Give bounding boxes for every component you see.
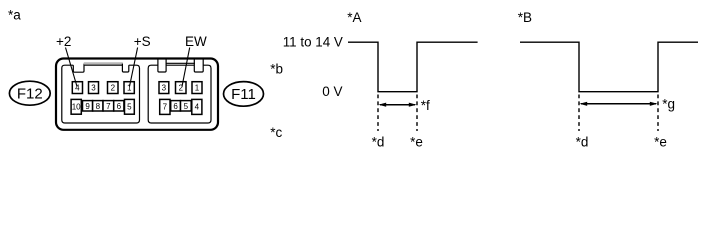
svg-text:8: 8 [96, 102, 101, 111]
waveform B width arrow [579, 102, 657, 106]
svg-text:3: 3 [91, 83, 96, 92]
svg-text:*a: *a [8, 7, 21, 22]
connector F12 left cavity outline [62, 64, 84, 120]
ellipse F11 [224, 82, 264, 107]
pin 4 (F11) [192, 99, 202, 114]
svg-text:*g: *g [662, 97, 675, 112]
svg-text:3: 3 [162, 83, 167, 92]
waveform A dashed marker right [416, 95, 418, 132]
svg-text:9: 9 [85, 102, 90, 111]
connector housing outer [56, 59, 218, 130]
pin 2 (F11) [176, 82, 187, 94]
svg-text:F11: F11 [231, 86, 256, 103]
pin 9 (F12) [83, 101, 93, 111]
svg-text:7: 7 [106, 102, 111, 111]
svg-text:10: 10 [72, 103, 81, 112]
svg-text:4: 4 [195, 103, 200, 112]
pin 1 (F12) [124, 82, 134, 94]
svg-text:7: 7 [163, 103, 168, 112]
pin 3 (F11) [159, 82, 169, 94]
leader EW to pin 2 [182, 48, 190, 87]
keying slot right (F11) [194, 59, 203, 72]
svg-text:*B: *B [518, 10, 532, 25]
svg-text:*A: *A [347, 10, 361, 25]
svg-text:*c: *c [270, 125, 282, 140]
svg-text:*d: *d [576, 134, 589, 149]
svg-text:2: 2 [111, 83, 116, 92]
pin 5 (F12) [125, 99, 135, 114]
pin 5 (F11) [181, 101, 192, 111]
lock tab top F11 [166, 62, 195, 64]
pin 10 (F12) [71, 99, 81, 114]
connector F12 left cavity outline continued [62, 64, 140, 123]
svg-text:*b: *b [270, 62, 283, 77]
ellipse F12 [9, 81, 50, 105]
svg-text:5: 5 [184, 102, 189, 111]
svg-text:F12: F12 [17, 85, 43, 102]
svg-text:0 V: 0 V [322, 84, 342, 99]
pin 7 (F12) [103, 101, 114, 111]
pin 7 (F11) [160, 99, 170, 114]
pin 4 (F12) [72, 82, 82, 94]
waveform A trace [348, 42, 478, 91]
connector F11 right cavity outline [148, 65, 211, 123]
svg-text:6: 6 [173, 102, 178, 111]
leader +S to pin 1 [130, 48, 138, 87]
svg-text:+S: +S [134, 34, 151, 49]
pin 6 (F11) [171, 101, 181, 111]
pin 2 (F12) [108, 82, 119, 94]
svg-text:6: 6 [117, 102, 122, 111]
keying slot left (F11) [158, 59, 166, 72]
svg-text:1: 1 [195, 83, 200, 92]
waveform B dashed marker right [657, 95, 659, 132]
pin 1 (F11) [192, 82, 202, 94]
waveform A width arrow [378, 103, 416, 107]
pin 3 (F12) [89, 82, 99, 94]
waveform A dashed marker left [377, 95, 379, 132]
svg-text:11 to 14 V: 11 to 14 V [283, 34, 343, 49]
pin 8 (F12) [93, 101, 103, 111]
lock tab top (grey) F12 [84, 62, 123, 64]
pin 6 (F12) [114, 101, 124, 111]
waveform B dashed marker left [578, 95, 580, 132]
leader +2 to pin 4 [66, 48, 78, 87]
svg-text:+2: +2 [56, 34, 71, 49]
svg-text:*f: *f [421, 98, 430, 113]
svg-text:*e: *e [410, 134, 423, 149]
waveform B trace [520, 42, 698, 91]
svg-text:*d: *d [372, 134, 385, 149]
svg-text:5: 5 [127, 103, 132, 112]
svg-text:*e: *e [654, 134, 667, 149]
svg-text:EW: EW [185, 34, 207, 49]
